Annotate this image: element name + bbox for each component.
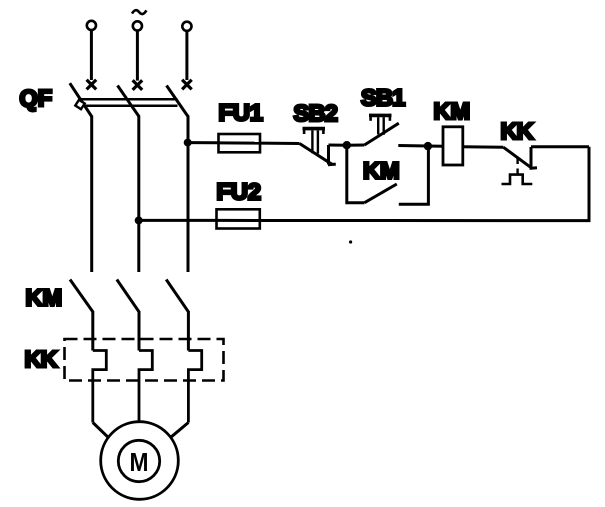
svg-text:KM: KM xyxy=(363,158,400,184)
svg-text:SB2: SB2 xyxy=(294,100,338,126)
wire to FU1 xyxy=(188,141,219,144)
contact KK right terminal xyxy=(530,147,533,169)
wire phase A vertical xyxy=(90,116,93,273)
fuse FU1 xyxy=(219,134,261,152)
node FU2 branch junction xyxy=(135,216,143,224)
wire coil to KK xyxy=(463,145,504,149)
terminal L3 xyxy=(182,22,192,90)
terminal L1 xyxy=(87,21,97,90)
relay KK heater element 1 xyxy=(93,351,107,423)
svg-text:KK: KK xyxy=(501,118,534,144)
relay KK heater element 3 xyxy=(188,351,201,423)
contact KM main pole 3 blade xyxy=(166,280,188,312)
wire phase B to heater xyxy=(138,311,141,351)
AC source tilde xyxy=(132,10,146,14)
pushbutton SB2 right terminal xyxy=(327,145,330,165)
node B junction xyxy=(424,142,432,150)
contact KK blade tip xyxy=(530,166,538,170)
svg-text:SB1: SB1 xyxy=(361,85,405,111)
pushbutton SB1 blade xyxy=(364,123,398,145)
contact KK actuator link xyxy=(516,159,518,174)
speck xyxy=(349,240,352,243)
pushbutton SB2 (NC stop) blade xyxy=(300,144,333,165)
wire phase C to heater xyxy=(187,311,190,351)
svg-text:FU2: FU2 xyxy=(217,179,261,205)
breaker QF pole 1 blade xyxy=(70,83,92,116)
wire phase A to heater xyxy=(91,311,94,351)
relay KK dashed enclosure xyxy=(65,339,224,381)
motor M inner circle xyxy=(118,440,159,481)
svg-text:KM: KM xyxy=(434,98,471,124)
svg-text:KM: KM xyxy=(26,285,63,311)
svg-text:FU1: FU1 xyxy=(219,100,263,126)
contact KM main pole 2 blade xyxy=(117,280,139,312)
wire SB1 to coil KM xyxy=(398,144,443,148)
wire KK to right rail xyxy=(531,145,589,148)
svg-text:QF: QF xyxy=(20,85,53,111)
wire motor lead 1 xyxy=(93,423,108,438)
wire KM aux left drop xyxy=(347,145,365,203)
wire SB2 to node A xyxy=(329,144,347,147)
relay KK heater element 2 xyxy=(139,351,152,422)
pushbutton SB2 blade tip xyxy=(328,163,336,167)
node A junction xyxy=(343,141,351,149)
breaker QF pole 2 blade xyxy=(118,86,140,117)
contact KK (NC thermal) blade xyxy=(504,147,533,168)
wire bottom rail xyxy=(260,147,589,221)
contact KK thermal actuator xyxy=(502,175,533,184)
pushbutton SB1 (NO start) left stub xyxy=(347,144,365,147)
contact KM auxiliary blade xyxy=(365,184,397,203)
wire phase B to FU2 xyxy=(139,219,217,222)
fuse FU2 xyxy=(217,209,260,228)
coil KM xyxy=(443,127,463,165)
breaker QF linkage bar xyxy=(81,99,178,106)
terminal L2 xyxy=(133,21,143,90)
wire FU1 to SB2 xyxy=(260,142,300,145)
breaker QF pole 3 blade xyxy=(167,86,189,117)
wire phase C vertical xyxy=(187,116,190,273)
wire phase B vertical xyxy=(137,116,140,273)
svg-text:KK: KK xyxy=(25,346,58,372)
pushbutton SB2 actuator xyxy=(303,127,326,154)
node FU1 branch junction xyxy=(184,139,192,147)
wire KM aux right stub xyxy=(399,146,429,204)
pushbutton SB1 actuator xyxy=(369,114,392,135)
svg-text:M: M xyxy=(130,447,149,477)
breaker QF latch diamond xyxy=(75,100,84,109)
motor M outer circle xyxy=(101,422,179,500)
contact KM main pole 1 blade xyxy=(70,280,93,312)
wire motor lead 3 xyxy=(171,423,189,438)
